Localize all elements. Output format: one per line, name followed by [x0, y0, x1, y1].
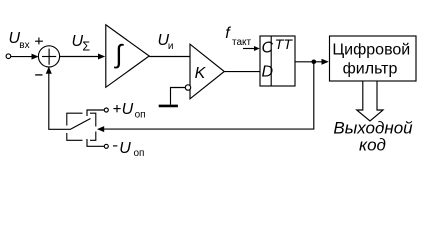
- svg-text:D: D: [262, 64, 274, 81]
- label fтакт: [225, 25, 251, 48]
- svg-text:C: C: [262, 40, 274, 57]
- integrator U1: [106, 25, 149, 88]
- svg-text:оп: оп: [135, 110, 146, 121]
- switch lever: [70, 119, 91, 130]
- wire summer to integrator: [60, 54, 105, 60]
- feedback wire down and left to switch: [104, 62, 314, 129]
- svg-text:оп: оп: [134, 148, 145, 159]
- wire comparator to D input: [224, 71, 260, 73]
- control arrowhead at switch: [97, 126, 104, 132]
- svg-text:Цифровой: Цифровой: [332, 42, 410, 59]
- comparator U2: [190, 44, 224, 99]
- svg-text:и: и: [168, 41, 174, 52]
- label -Uоп: [113, 140, 144, 159]
- switch top contact: [87, 108, 108, 116]
- junction node: [312, 60, 317, 65]
- wire input to summer: [11, 54, 39, 60]
- flip-flop U3 (TT): [260, 36, 295, 86]
- switch bottom contact: [87, 139, 108, 148]
- switch S1 dashed enclosure: [67, 113, 96, 140]
- label +Uоп: [113, 101, 145, 121]
- output hollow arrow: [357, 82, 383, 122]
- ground: [159, 105, 178, 108]
- input terminal: [6, 54, 11, 59]
- inverting input bubble: [185, 85, 190, 90]
- label UΣ: [72, 33, 91, 53]
- svg-text:фильтр: фильтр: [343, 61, 398, 78]
- plus sign (noninverting input): [35, 38, 43, 45]
- wire FF output to digital filter: [295, 59, 329, 65]
- digital filter box: [330, 36, 417, 81]
- wire bubble to ground: [171, 88, 186, 105]
- svg-text:U: U: [122, 101, 134, 118]
- wire integrator to comparator: [149, 56, 190, 58]
- label Uвх: [9, 30, 30, 51]
- label Uи: [158, 32, 174, 52]
- svg-text:такт: такт: [232, 37, 252, 48]
- svg-text:K: K: [195, 65, 207, 82]
- svg-text:TT: TT: [275, 36, 294, 52]
- svg-text:вх: вх: [19, 40, 29, 51]
- svg-text:U: U: [119, 140, 131, 157]
- label Выходной код: [333, 119, 413, 155]
- svg-text:код: код: [359, 136, 386, 155]
- svg-text:Σ: Σ: [82, 39, 90, 53]
- clock wire: [243, 46, 260, 51]
- feedback wire to summer: [46, 67, 70, 130]
- minus sign (inverting input): [35, 74, 42, 76]
- summing junction: [38, 46, 59, 67]
